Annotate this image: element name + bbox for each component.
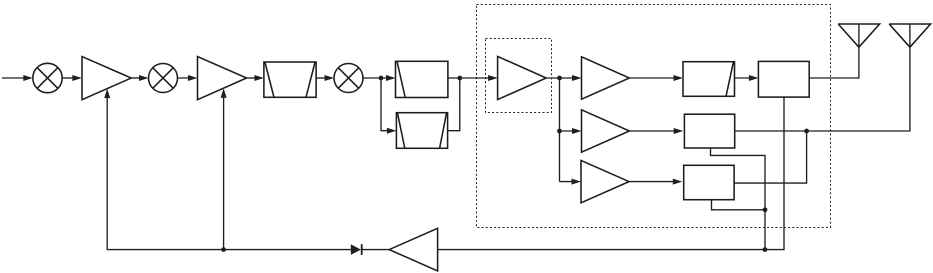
arrowhead into amp B2: [572, 128, 582, 134]
wire X3 output up to X2 line: [734, 131, 807, 183]
wire B3 to block X3: [629, 181, 679, 183]
mixer M3: [334, 64, 363, 93]
arrowhead into block X2: [674, 128, 684, 134]
dashed driver box: [486, 39, 552, 113]
node split middle branch: [557, 129, 562, 134]
arrowhead into block X3: [673, 179, 683, 185]
wire feedback to A2: [223, 92, 225, 250]
mixer M1: [33, 63, 62, 92]
block X1: [758, 61, 809, 97]
wire distribution vertical: [559, 78, 561, 182]
node split after M3: [379, 76, 384, 81]
arrowhead into filter F3: [674, 75, 684, 81]
arrowhead into amp A3: [488, 75, 498, 81]
wire M3 to filter F2a: [363, 77, 392, 79]
wire to B3: [560, 181, 578, 183]
arrowhead into block X1: [749, 75, 759, 81]
wire M2 to A2: [178, 77, 195, 79]
wire input: [2, 77, 29, 79]
node X3 stub join: [763, 207, 768, 212]
wire A1 to M2: [131, 77, 145, 79]
node on X2 output: [804, 129, 809, 134]
op-amp B1: [582, 57, 630, 99]
dashed module box: [477, 5, 831, 228]
arrowhead into filter F2b: [387, 128, 397, 134]
op-amp B2: [582, 110, 630, 152]
wire F3 to block X1: [735, 77, 756, 79]
antenna ANT1: [838, 24, 879, 47]
op-amp A1: [82, 57, 131, 100]
wire A2 to F1: [247, 77, 261, 79]
arrowhead into filter F1: [254, 75, 264, 81]
arrowhead into mixer M2: [139, 75, 149, 81]
op-amp A3: [498, 56, 547, 99]
wire M1 to A1: [62, 77, 78, 79]
block X2: [684, 114, 734, 148]
arrowhead into amp B3: [572, 179, 582, 185]
wire branch down to F2b: [381, 78, 393, 131]
wire F2b output up: [448, 78, 460, 131]
filter F1: [264, 62, 316, 97]
wire to B2: [560, 130, 579, 132]
arrowhead up into A2: [221, 88, 227, 98]
wire F2a to amp A3: [448, 77, 494, 79]
arrowhead into filter F2a: [386, 75, 396, 81]
op-amp A2: [198, 57, 247, 100]
wire X2 output to antenna ANT2: [735, 24, 910, 131]
wire F1 to M3: [316, 77, 330, 79]
wire X1 bottom stub and feedback line: [438, 97, 784, 250]
node join of F2b path: [457, 76, 462, 81]
block X3: [684, 165, 734, 199]
node split to three amps: [557, 76, 562, 81]
arrowhead into amp A2: [188, 75, 198, 81]
wire U1 to diode D1: [363, 249, 390, 251]
wire A3 to B1: [546, 77, 578, 79]
filter F3: [683, 62, 735, 97]
wire B2 to block X2: [629, 130, 680, 132]
arrowhead into mixer M3: [325, 75, 335, 81]
op-amp B3: [581, 160, 629, 202]
wire X1 output to antenna ANT1: [809, 24, 859, 78]
arrowhead into mixer M1: [23, 75, 33, 81]
diode D1: [351, 244, 362, 255]
node feedback split: [221, 247, 226, 252]
op-amp feedback U1: [389, 228, 437, 271]
wire feedback to A1: [107, 92, 351, 250]
node feedback join: [763, 247, 768, 252]
wire B1 to F3: [629, 77, 679, 79]
arrowhead into amp B1: [572, 75, 582, 81]
mixer M2: [149, 64, 178, 93]
filter F2b: [396, 113, 447, 149]
wire X2 bottom stub down: [711, 148, 766, 250]
wire X3 bottom stub: [712, 200, 766, 210]
arrowhead into amp A1: [72, 75, 82, 81]
arrowhead up into A1: [104, 89, 110, 99]
filter F2a: [396, 61, 448, 97]
antenna ANT2: [889, 24, 930, 47]
